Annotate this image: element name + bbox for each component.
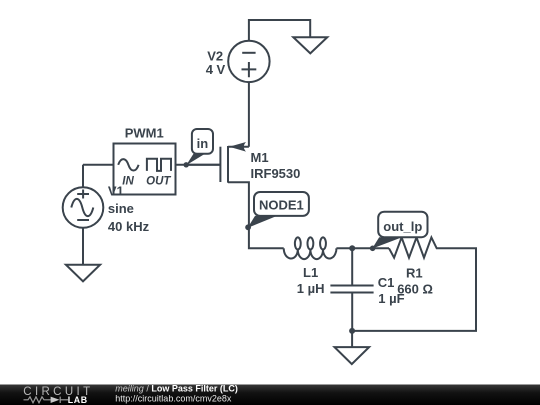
svg-text:C1: C1 [378,275,395,290]
svg-text:http://circuitlab.com/cmv2e8x: http://circuitlab.com/cmv2e8x [115,394,232,404]
svg-text:L1: L1 [303,265,318,280]
svg-text:R1: R1 [406,265,423,280]
svg-text:IRF9530: IRF9530 [251,166,301,181]
svg-text:NODE1: NODE1 [259,198,304,213]
svg-text:in: in [197,136,209,151]
svg-text:IN: IN [122,175,134,187]
svg-text:1 µH: 1 µH [297,281,325,296]
svg-text:40 kHz: 40 kHz [108,219,150,234]
svg-text:LAB: LAB [68,395,88,405]
svg-text:PWM1: PWM1 [125,125,164,140]
svg-text:out_lp: out_lp [383,219,422,234]
svg-text:660 Ω: 660 Ω [397,282,433,297]
svg-text:4 V: 4 V [206,62,226,77]
svg-text:sine: sine [108,201,134,216]
svg-text:meiling / Low Pass Filter (LC): meiling / Low Pass Filter (LC) [115,383,238,393]
svg-text:OUT: OUT [146,175,171,187]
svg-text:M1: M1 [251,150,269,165]
